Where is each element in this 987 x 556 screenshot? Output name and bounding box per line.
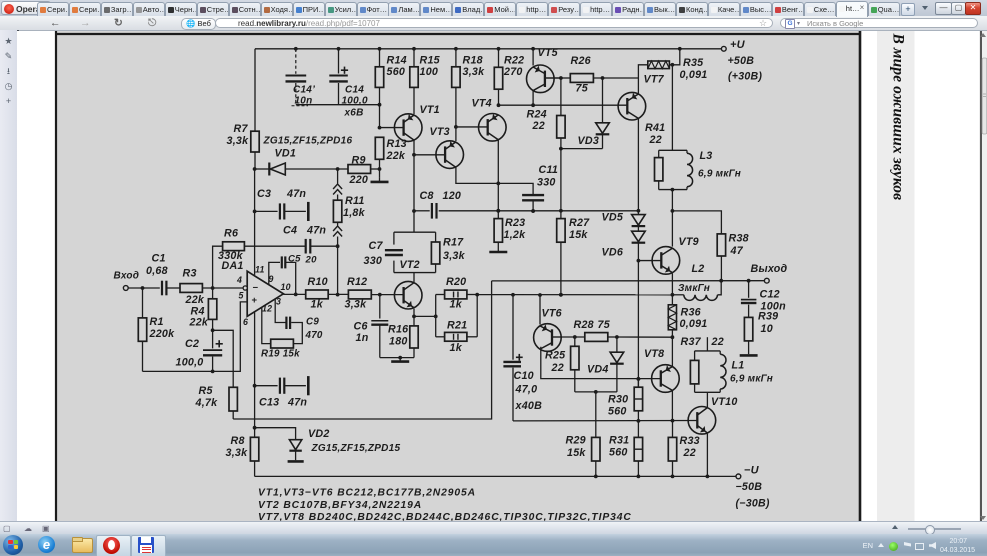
capacitor C12	[741, 281, 786, 318]
resistor R38	[672, 211, 748, 281]
chevron marks lower	[333, 226, 342, 237]
svg-text:1,2k: 1,2k	[504, 229, 527, 241]
wire R36 to L1 block	[706, 337, 708, 351]
svg-text:−U: −U	[744, 464, 760, 476]
svg-text:R17: R17	[443, 237, 464, 249]
capacitor C5	[269, 254, 317, 297]
wire C14 bottom to VT1 base column	[296, 103, 382, 107]
resistor R10	[306, 276, 329, 311]
svg-text:4,7k: 4,7k	[195, 397, 219, 409]
transistor VT6	[534, 295, 562, 351]
chevron marks upper	[333, 184, 342, 195]
svg-text:C3: C3	[257, 188, 271, 200]
page border frame	[55, 31, 861, 521]
zener VD1	[253, 136, 353, 176]
wire VD4 R25 bottom loop	[575, 390, 617, 394]
svg-text:R15: R15	[420, 54, 441, 66]
svg-text:R38: R38	[729, 232, 749, 244]
svg-text:x40В: x40В	[515, 400, 543, 412]
transistor list text	[258, 487, 632, 523]
svg-text:ZG15,ZF15,ZPD16: ZG15,ZF15,ZPD16	[263, 136, 353, 147]
zener VD2	[255, 428, 401, 462]
svg-text:R1: R1	[150, 316, 164, 328]
svg-text:VD3: VD3	[578, 135, 600, 147]
wire VT7 emitter / VD5 column top	[637, 118, 641, 214]
resistor R27	[557, 211, 590, 297]
svg-text:R30: R30	[608, 393, 628, 405]
svg-text:22: 22	[683, 447, 696, 459]
svg-text:R7: R7	[234, 123, 249, 135]
svg-text:47n: 47n	[287, 397, 307, 409]
resistor R13	[375, 137, 407, 178]
svg-text:3,3k: 3,3k	[226, 447, 249, 459]
svg-text:VT10: VT10	[711, 396, 738, 408]
resistor R18	[452, 49, 485, 141]
right pane separator	[981, 31, 987, 521]
wire VT7 collector	[637, 78, 639, 94]
resistor R24	[527, 78, 566, 149]
svg-text:R22: R22	[504, 54, 524, 66]
wire L3 bottom to VT9	[671, 190, 675, 247]
capacitor C4	[283, 225, 340, 254]
capacitor C2	[176, 330, 223, 373]
svg-text:VT3: VT3	[430, 126, 450, 138]
svg-text:15k: 15k	[569, 229, 588, 241]
svg-text:22: 22	[649, 134, 662, 146]
resistor R39	[740, 310, 779, 355]
svg-text:C14: C14	[345, 84, 364, 95]
resistor R28	[574, 319, 617, 341]
resistor R29	[566, 392, 601, 477]
svg-text:R39: R39	[758, 310, 778, 322]
capacitor C7 resistor R17 parallel	[364, 211, 466, 282]
svg-text:470: 470	[305, 330, 323, 341]
svg-text:R33: R33	[680, 435, 700, 447]
svg-text:75: 75	[598, 319, 611, 331]
resistor R7	[227, 49, 260, 169]
svg-text:R10: R10	[308, 276, 328, 288]
capacitor C13	[255, 376, 309, 408]
svg-text:47n: 47n	[306, 225, 326, 237]
wire VT1 emitter column	[412, 140, 416, 213]
svg-text:C9: C9	[306, 316, 319, 327]
svg-text:22k: 22k	[386, 150, 406, 162]
svg-text:4: 4	[236, 275, 242, 285]
svg-text:VD4: VD4	[587, 364, 609, 376]
svg-text:VT9: VT9	[679, 236, 699, 248]
wire speaker bus	[492, 279, 766, 283]
svg-text:22: 22	[551, 362, 564, 374]
svg-text:VT8: VT8	[644, 348, 664, 360]
transistor VT7	[497, 73, 665, 120]
svg-text:11: 11	[255, 264, 265, 274]
resistor R36 (fusible)	[668, 295, 707, 339]
svg-text:R25: R25	[545, 350, 566, 362]
svg-text:3,3k: 3,3k	[227, 135, 250, 147]
svg-text:R24: R24	[527, 108, 547, 120]
wire output node bus	[475, 293, 672, 297]
svg-text:VT6: VT6	[542, 307, 562, 319]
svg-text:R41: R41	[645, 122, 665, 134]
diode VD6	[602, 231, 646, 262]
transistor VT5	[527, 47, 563, 93]
browser status bar	[0, 521, 987, 535]
svg-text:В мире оживших звуков: В мире оживших звуков	[890, 33, 907, 201]
wire VT6 emitter to VT8 base	[541, 347, 661, 381]
svg-text:C7: C7	[369, 240, 384, 252]
svg-text:L2: L2	[692, 263, 705, 275]
svg-text:1k: 1k	[450, 342, 463, 354]
svg-text:L3: L3	[700, 150, 713, 162]
svg-text:C8: C8	[420, 190, 434, 202]
wire VD6 to VT8 base column	[637, 261, 641, 388]
svg-text:560: 560	[387, 66, 406, 78]
diode VD4	[587, 335, 624, 392]
capacitor C10	[503, 295, 542, 421]
wire VT8 collector	[671, 337, 673, 366]
svg-text:R29: R29	[566, 435, 586, 447]
svg-text:ЗмкГн: ЗмкГн	[678, 283, 710, 294]
svg-text:C6: C6	[354, 320, 368, 332]
svg-text:(−30В): (−30В)	[736, 497, 770, 509]
svg-text:C4: C4	[283, 225, 297, 237]
wire VT9 emitter to output node	[671, 273, 675, 296]
windows taskbar	[0, 534, 987, 556]
capacitor C6	[354, 293, 389, 358]
svg-text:R5: R5	[199, 385, 214, 397]
svg-text:270: 270	[503, 66, 523, 78]
svg-text:100: 100	[420, 66, 439, 78]
svg-text:C13: C13	[259, 397, 279, 409]
resistor R21	[436, 295, 478, 355]
svg-text:10: 10	[281, 282, 291, 292]
wire op-amp output	[283, 293, 305, 295]
svg-text:47,0: 47,0	[515, 383, 538, 395]
svg-text:VT4: VT4	[472, 97, 492, 109]
svg-text:C14’: C14’	[293, 84, 315, 95]
ground under R23	[489, 248, 507, 252]
svg-text:3,3k: 3,3k	[443, 250, 466, 262]
wire pin11 column	[254, 169, 256, 275]
svg-text:R9: R9	[352, 155, 366, 167]
capacitor C3	[253, 188, 309, 221]
wire VD3 R24 junction	[559, 147, 603, 211]
wire +U top rail	[255, 47, 723, 51]
svg-text:R19 15k: R19 15k	[261, 349, 300, 360]
svg-text:VT2 BC107B,BFY34,2N2219A: VT2 BC107B,BFY34,2N2219A	[258, 500, 422, 511]
svg-text:R28: R28	[574, 319, 594, 331]
svg-text:R27: R27	[569, 217, 590, 229]
wire VT3 VT4 emitters	[456, 140, 533, 219]
terminal input	[114, 271, 140, 291]
resistor R14	[375, 49, 407, 128]
svg-text:+50В: +50В	[728, 55, 755, 67]
svg-text:220k: 220k	[149, 328, 176, 340]
svg-text:560: 560	[609, 447, 628, 459]
transistor VT2	[394, 259, 422, 309]
svg-text:560: 560	[608, 405, 627, 417]
svg-text:R3: R3	[183, 268, 197, 280]
svg-text:6: 6	[243, 317, 248, 327]
svg-text:20: 20	[305, 255, 318, 266]
svg-text:L1: L1	[732, 360, 745, 372]
svg-text:R20: R20	[446, 276, 466, 288]
svg-text:22k: 22k	[189, 316, 209, 328]
resistor R16	[388, 309, 418, 358]
svg-text:VT2: VT2	[400, 259, 420, 271]
address bar	[0, 16, 987, 31]
wire -U rail	[255, 475, 737, 479]
svg-text:R36: R36	[681, 307, 701, 319]
svg-text:C12: C12	[760, 288, 780, 300]
svg-text:R35: R35	[683, 57, 704, 69]
svg-text:120: 120	[443, 190, 462, 202]
wire feedback return	[233, 281, 491, 419]
magazine vertical title	[890, 33, 907, 201]
svg-text:220: 220	[349, 174, 369, 186]
svg-text:C11: C11	[539, 164, 559, 176]
svg-text:C5: C5	[288, 254, 301, 265]
svg-text:R26: R26	[571, 55, 591, 67]
resistor R23	[494, 217, 526, 248]
svg-text:R12: R12	[347, 276, 367, 288]
svg-text:6,9 мкГн: 6,9 мкГн	[698, 168, 741, 179]
svg-text:−: −	[253, 282, 259, 293]
capacitor C8	[420, 190, 462, 219]
svg-text:VD2: VD2	[308, 428, 330, 440]
svg-text:R11: R11	[345, 195, 365, 207]
resistor R9	[348, 155, 381, 186]
resistor R6	[213, 228, 305, 288]
svg-text:1k: 1k	[311, 298, 324, 310]
svg-text:0,091: 0,091	[680, 318, 708, 330]
svg-text:VT5: VT5	[538, 47, 559, 59]
svg-text:R8: R8	[231, 435, 245, 447]
svg-text:C10: C10	[514, 370, 534, 382]
wire VT2 emitter to R20 R21	[414, 295, 438, 337]
resistor R12	[328, 276, 403, 311]
resistor R31	[609, 421, 643, 476]
resistor R20	[436, 276, 478, 311]
transistor VT10	[688, 392, 737, 476]
wire VT5 emitter	[532, 91, 534, 106]
wire input ground return	[143, 302, 248, 372]
svg-text:R21: R21	[447, 320, 467, 332]
resistor R22	[494, 49, 524, 105]
svg-text:−50В: −50В	[736, 481, 763, 493]
resistor R25	[545, 337, 579, 392]
resistor R11	[333, 195, 365, 222]
sidebar panel	[0, 30, 19, 521]
svg-text:330: 330	[537, 176, 556, 188]
wire midline C8 C11 R27 VD5	[414, 209, 638, 213]
svg-text:R14: R14	[387, 54, 407, 66]
svg-text:15k: 15k	[567, 447, 586, 459]
op-amp DA1	[236, 264, 291, 327]
wire pin6 column	[253, 313, 257, 430]
svg-text:R37: R37	[681, 336, 702, 348]
wire input node	[128, 286, 160, 290]
terminal output	[751, 263, 788, 283]
svg-text:VT1: VT1	[420, 104, 440, 116]
inductor L2	[672, 263, 723, 300]
capacitor C14' (dashed)	[286, 49, 316, 107]
inductor L1 with R37	[695, 351, 773, 392]
svg-text:47n: 47n	[286, 188, 306, 200]
svg-text:47: 47	[730, 245, 744, 257]
terminal -U	[736, 464, 770, 509]
wire C10 bottom to VT10 base	[513, 420, 697, 422]
svg-text:R23: R23	[505, 217, 525, 229]
svg-text:180: 180	[389, 336, 408, 348]
resistor R8	[226, 428, 259, 477]
svg-text:22: 22	[532, 120, 545, 132]
svg-text:R18: R18	[463, 54, 483, 66]
svg-text:+: +	[252, 295, 258, 306]
resistor R5	[195, 330, 238, 419]
svg-text:x6В: x6В	[344, 108, 364, 119]
resistor R3	[180, 268, 245, 306]
svg-text:DA1: DA1	[222, 260, 244, 272]
transistor VT9	[638, 236, 698, 274]
ground under R16 C6	[380, 356, 414, 362]
wire R28 line to VT8 collector	[617, 336, 673, 338]
svg-text:75: 75	[576, 83, 589, 95]
svg-text:5: 5	[239, 291, 244, 301]
resistor R41	[645, 122, 665, 181]
svg-text:C2: C2	[185, 338, 199, 350]
svg-text:3,3k: 3,3k	[463, 66, 486, 78]
wire R11 column	[336, 169, 340, 297]
svg-text:Выход: Выход	[751, 263, 788, 275]
resistor R30	[608, 379, 643, 423]
capacitor C1	[146, 253, 180, 296]
resistor R15	[410, 49, 441, 114]
svg-text:R6: R6	[224, 228, 238, 240]
resistor R1	[138, 288, 175, 371]
svg-text:R16: R16	[388, 323, 408, 335]
svg-text:6,9 мкГн: 6,9 мкГн	[730, 374, 773, 385]
resistor R37	[681, 336, 724, 384]
resistor R35 (fusible)	[638, 49, 707, 81]
capacitor C14	[329, 49, 368, 119]
svg-text:330: 330	[364, 255, 383, 267]
inductor L3 with R41	[659, 65, 741, 192]
svg-text:(+30В): (+30В)	[728, 70, 762, 82]
svg-text:3,3k: 3,3k	[345, 298, 368, 310]
scrollbar thumb	[980, 33, 987, 520]
transistor VT3	[414, 126, 464, 168]
svg-text:+U: +U	[730, 39, 746, 51]
svg-text:ZG15,ZF15,ZPD15: ZG15,ZF15,ZPD15	[311, 443, 401, 454]
capacitor C11	[522, 164, 558, 213]
svg-text:VD5: VD5	[602, 211, 624, 223]
browser tab bar	[0, 0, 987, 17]
resistor R4	[189, 288, 217, 332]
transistor VT4	[456, 97, 506, 141]
svg-text:R31: R31	[609, 435, 629, 447]
ground under R13	[371, 178, 389, 182]
wire VT5 collector to rail	[532, 49, 534, 66]
capacitor C9 resistor R19 feedback	[261, 299, 323, 359]
svg-text:Вход: Вход	[114, 271, 140, 282]
svg-text:12: 12	[262, 304, 272, 314]
svg-text:VD6: VD6	[602, 246, 624, 258]
svg-text:C1: C1	[152, 253, 166, 265]
svg-text:1,8k: 1,8k	[343, 207, 366, 219]
wire VT8 emitter	[671, 390, 675, 422]
transistor VT1	[378, 104, 440, 142]
svg-text:22: 22	[711, 336, 724, 348]
svg-text:0,68: 0,68	[146, 265, 168, 277]
svg-text:100,0: 100,0	[176, 356, 204, 368]
svg-text:10: 10	[761, 323, 773, 335]
resistor R26	[561, 55, 639, 94]
svg-text:3: 3	[276, 296, 281, 306]
transistor VT8	[644, 348, 679, 392]
svg-text:22k: 22k	[185, 294, 205, 306]
wire VT6 base R28 VD4 line	[561, 335, 584, 339]
svg-text:1n: 1n	[356, 332, 369, 344]
svg-text:1k: 1k	[450, 298, 463, 310]
svg-text:VT7: VT7	[644, 73, 665, 85]
zener VD3	[578, 78, 610, 149]
svg-text:VD1: VD1	[275, 147, 297, 159]
svg-text:VT1,VT3−VT6 BC212,BC177B,2N29: VT1,VT3−VT6 BC212,BC177B,2N2905A	[258, 487, 476, 498]
terminal +U	[721, 39, 762, 82]
svg-text:0,091: 0,091	[680, 69, 708, 81]
diode VD5	[602, 211, 646, 231]
resistor R33	[668, 421, 700, 477]
